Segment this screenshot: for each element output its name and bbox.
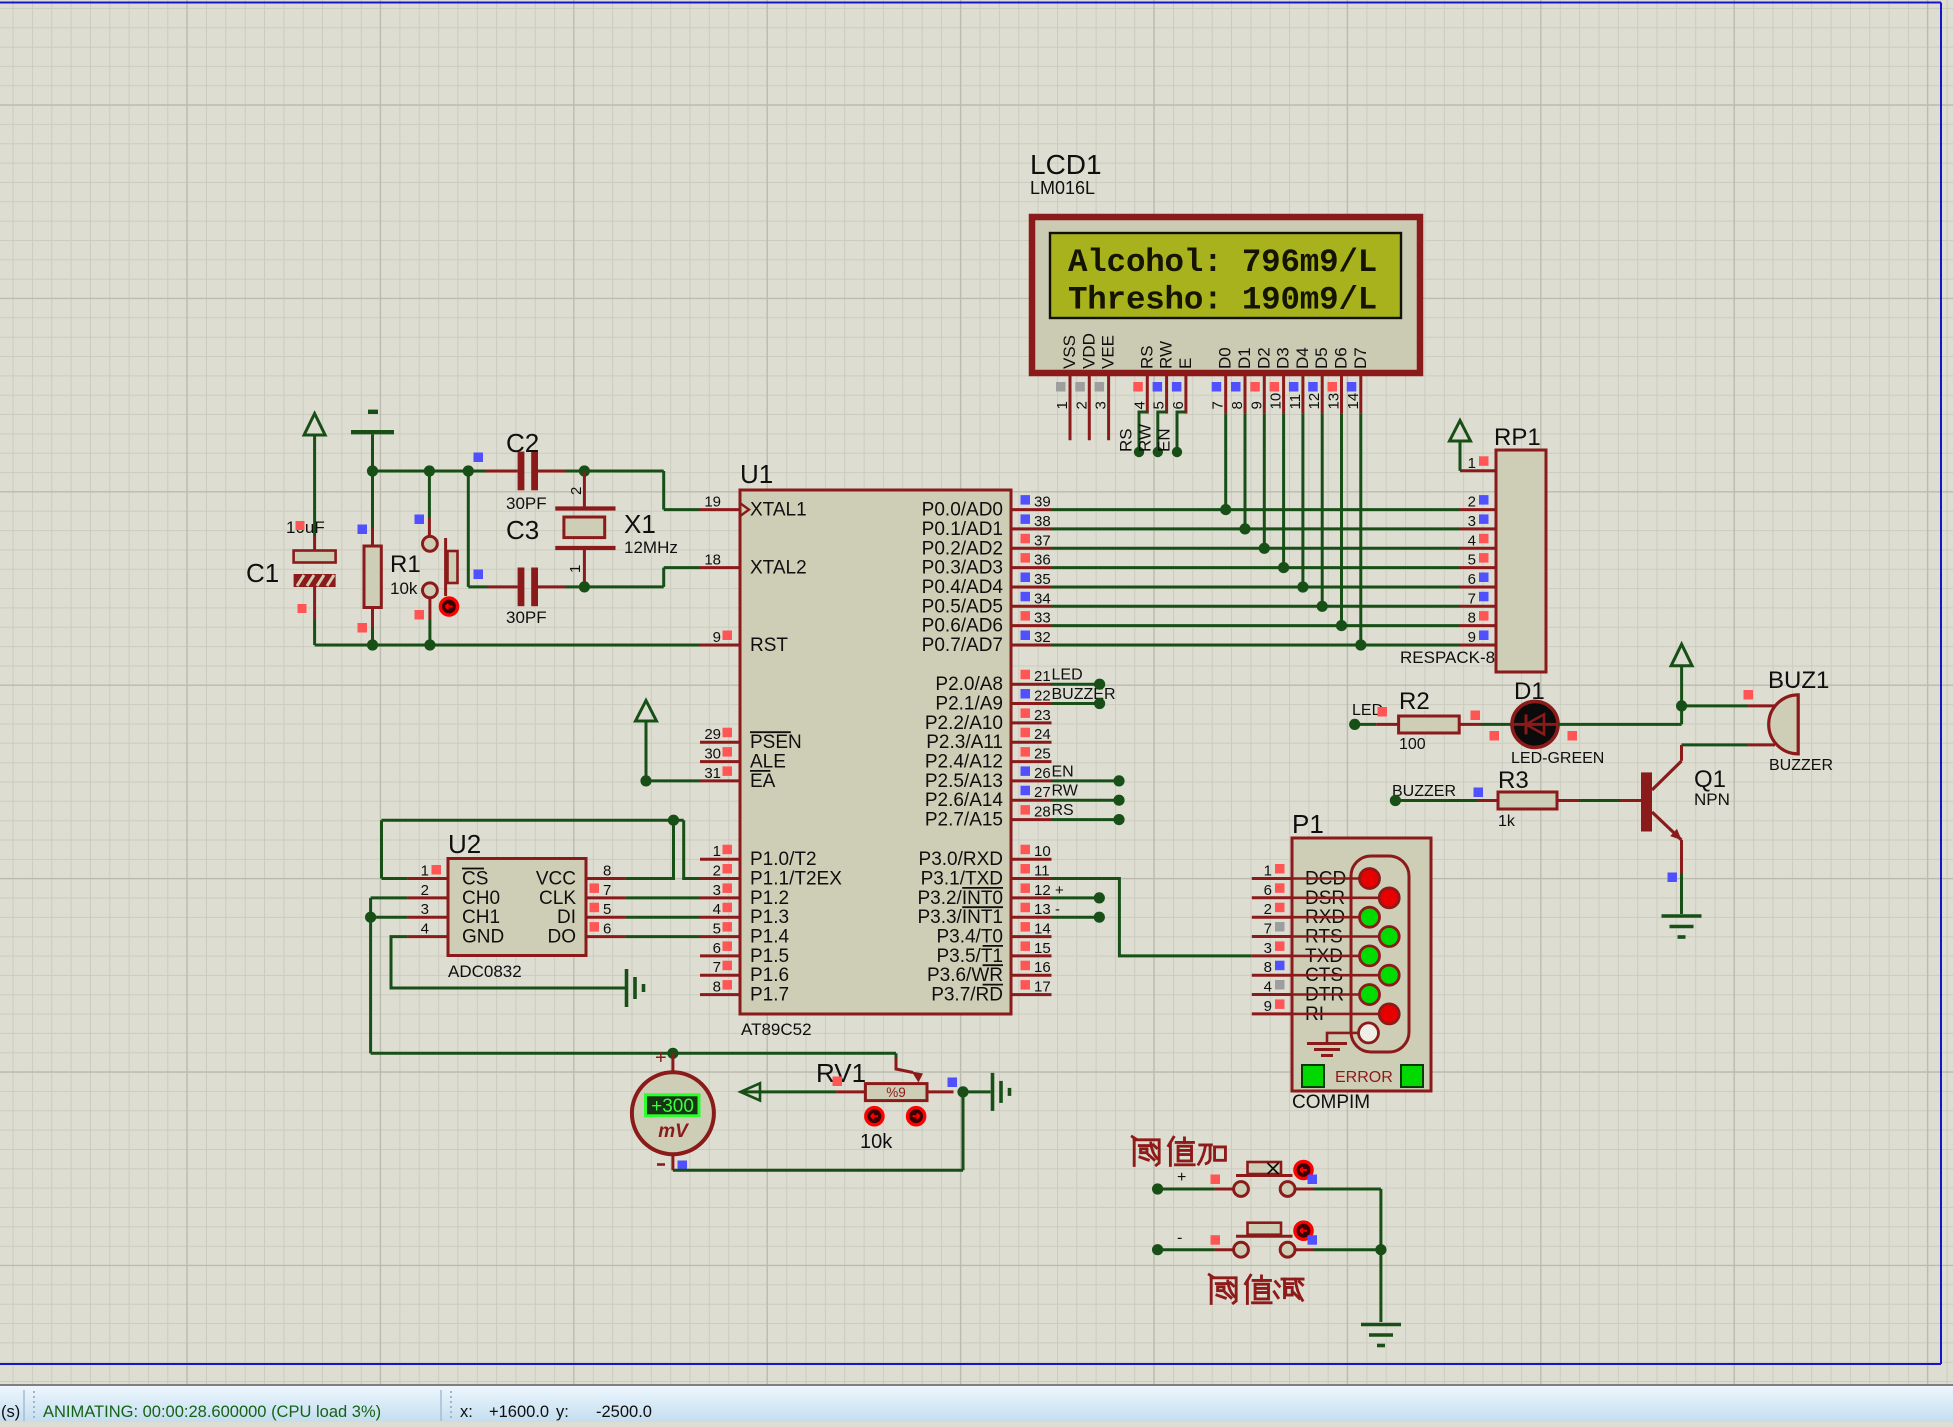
svg-text:P1.2: P1.2	[750, 888, 789, 909]
svg-text:10k: 10k	[860, 1131, 893, 1153]
svg-text:1: 1	[1054, 401, 1071, 409]
svg-text:30PF: 30PF	[506, 608, 547, 627]
svg-text:5: 5	[1151, 401, 1168, 409]
svg-text:y:: y:	[556, 1403, 569, 1421]
svg-text:1: 1	[567, 565, 584, 573]
svg-text:R3: R3	[1498, 767, 1529, 794]
svg-text:P2.0/A8: P2.0/A8	[935, 674, 1003, 695]
svg-text:27: 27	[1034, 784, 1051, 801]
svg-text:VDD: VDD	[1079, 333, 1098, 369]
svg-text:11: 11	[1034, 863, 1050, 880]
svg-text:T: T	[1068, 282, 1088, 319]
svg-text:14: 14	[1034, 921, 1051, 938]
svg-text:P0.1/AD1: P0.1/AD1	[922, 519, 1003, 540]
svg-text:10: 10	[1268, 393, 1285, 410]
svg-text:r: r	[1107, 282, 1127, 319]
svg-text:2: 2	[421, 882, 429, 899]
svg-text:D5: D5	[1312, 347, 1331, 369]
svg-text:P1.1/T2EX: P1.1/T2EX	[750, 869, 842, 890]
svg-text:13: 13	[1034, 901, 1051, 918]
svg-text:7: 7	[713, 959, 721, 976]
svg-text:ALE: ALE	[750, 752, 786, 773]
svg-text:4: 4	[1264, 979, 1272, 996]
svg-text:34: 34	[1034, 590, 1051, 607]
svg-text:P3.0/RXD: P3.0/RXD	[919, 849, 1003, 870]
svg-text:P0.0/AD0: P0.0/AD0	[922, 500, 1003, 521]
svg-text:l: l	[1184, 244, 1204, 281]
svg-text:U1: U1	[740, 459, 773, 489]
svg-text:RS: RS	[1052, 802, 1074, 819]
svg-text:P0.7/AD7: P0.7/AD7	[922, 635, 1003, 656]
svg-text:P3.7/RD: P3.7/RD	[931, 985, 1003, 1006]
svg-text:D2: D2	[1254, 347, 1273, 369]
svg-text:30PF: 30PF	[506, 494, 547, 513]
svg-text:P1.0/T2: P1.0/T2	[750, 849, 817, 870]
svg-text:11: 11	[1287, 394, 1304, 410]
svg-text:RW: RW	[1052, 783, 1079, 800]
svg-text:GND: GND	[462, 927, 504, 948]
svg-text:6: 6	[603, 921, 611, 938]
svg-text:VSS: VSS	[1060, 335, 1079, 369]
svg-text:A: A	[1068, 244, 1088, 281]
svg-text:8: 8	[1468, 610, 1476, 627]
svg-text:2: 2	[1468, 494, 1476, 511]
svg-text:CH0: CH0	[462, 888, 500, 909]
svg-text:6: 6	[1170, 401, 1187, 409]
svg-text:7: 7	[1264, 921, 1272, 938]
svg-text:P2.2/A10: P2.2/A10	[925, 713, 1003, 734]
svg-text:13: 13	[1326, 393, 1343, 410]
svg-text:P2.4/A12: P2.4/A12	[925, 752, 1003, 773]
svg-text:R2: R2	[1399, 688, 1430, 715]
svg-text:L: L	[1358, 244, 1378, 281]
svg-text:BUZZER: BUZZER	[1052, 686, 1116, 703]
svg-text:P1.5: P1.5	[750, 946, 789, 967]
svg-text::: :	[1203, 244, 1223, 281]
svg-text:P3.3/INT1: P3.3/INT1	[917, 907, 1003, 928]
svg-text:P2.7/A15: P2.7/A15	[925, 810, 1003, 831]
svg-text:1: 1	[1242, 282, 1262, 319]
svg-text:6: 6	[713, 940, 721, 957]
svg-text:P1.4: P1.4	[750, 927, 790, 948]
svg-text:/: /	[1338, 244, 1358, 281]
svg-text:D1: D1	[1235, 347, 1254, 369]
svg-text:P2.1/A9: P2.1/A9	[935, 694, 1003, 715]
svg-text:35: 35	[1034, 571, 1051, 588]
svg-text:RST: RST	[750, 635, 788, 656]
svg-text:16: 16	[1034, 959, 1051, 976]
svg-text:1k: 1k	[1498, 813, 1516, 830]
svg-text:VEE: VEE	[1099, 335, 1118, 369]
svg-text:6: 6	[1264, 882, 1272, 899]
svg-text:12: 12	[1034, 882, 1051, 899]
svg-text:DI: DI	[557, 907, 576, 928]
svg-text:P0.6/AD6: P0.6/AD6	[922, 616, 1003, 637]
svg-text:P1.7: P1.7	[750, 985, 789, 1006]
svg-text:LED: LED	[1052, 667, 1083, 684]
svg-text:8: 8	[1229, 401, 1246, 409]
svg-text:P0.3/AD3: P0.3/AD3	[922, 558, 1003, 579]
svg-text:18: 18	[704, 552, 721, 569]
svg-text:4: 4	[713, 901, 721, 918]
svg-text:U2: U2	[448, 829, 481, 859]
svg-text:4: 4	[421, 921, 429, 938]
svg-text:32: 32	[1034, 629, 1051, 646]
svg-text:%9: %9	[886, 1085, 906, 1100]
svg-text:P3.5/T1: P3.5/T1	[936, 946, 1003, 967]
svg-text:15: 15	[1034, 940, 1051, 957]
svg-text:/: /	[1338, 282, 1358, 319]
svg-text:5: 5	[603, 901, 611, 918]
svg-text:33: 33	[1034, 610, 1051, 627]
svg-text:c: c	[1107, 244, 1127, 281]
svg-text:26: 26	[1034, 765, 1051, 782]
svg-text:BUZZER: BUZZER	[1769, 757, 1833, 774]
svg-text:RW: RW	[1136, 424, 1155, 452]
svg-text:3: 3	[1468, 513, 1476, 530]
svg-text:10uF: 10uF	[286, 518, 325, 537]
svg-text:5: 5	[713, 921, 721, 938]
svg-text:6: 6	[1280, 244, 1300, 281]
svg-text:RS: RS	[1137, 345, 1156, 369]
svg-text:+300: +300	[651, 1096, 694, 1117]
svg-text:ANIMATING: 00:00:28.600000 (CP: ANIMATING: 00:00:28.600000 (CPU load 3%)	[43, 1403, 381, 1421]
svg-text:e: e	[1126, 282, 1146, 319]
svg-text:37: 37	[1034, 532, 1051, 549]
svg-text:21: 21	[1034, 668, 1051, 685]
svg-text:ERROR: ERROR	[1335, 1069, 1393, 1086]
svg-text:2: 2	[1073, 401, 1090, 409]
svg-text:30: 30	[704, 746, 721, 763]
svg-text:5: 5	[1468, 552, 1476, 569]
svg-text:EA: EA	[750, 771, 776, 792]
svg-text:P1.6: P1.6	[750, 965, 789, 986]
svg-text:s: s	[1145, 282, 1165, 319]
svg-text:RP1: RP1	[1494, 424, 1541, 451]
svg-text:mV: mV	[658, 1121, 689, 1142]
svg-text:R1: R1	[390, 551, 421, 578]
svg-text:8: 8	[603, 863, 611, 880]
svg-text:ADC0832: ADC0832	[448, 962, 522, 981]
svg-text:P2.5/A13: P2.5/A13	[925, 771, 1003, 792]
svg-text:CS: CS	[462, 869, 488, 890]
svg-text:m: m	[1300, 244, 1320, 281]
svg-text:DO: DO	[548, 927, 577, 948]
svg-text:23: 23	[1034, 707, 1051, 724]
svg-text:+: +	[655, 1047, 667, 1069]
svg-text:P1.3: P1.3	[750, 907, 789, 928]
svg-text:BUZ1: BUZ1	[1768, 667, 1829, 694]
svg-text:1: 1	[713, 843, 721, 860]
svg-text:8: 8	[1264, 959, 1272, 976]
svg-text:7: 7	[1210, 401, 1227, 409]
svg-text:o: o	[1184, 282, 1204, 319]
svg-text:L: L	[1358, 282, 1378, 319]
svg-text:3: 3	[421, 901, 429, 918]
svg-text:4: 4	[1131, 401, 1148, 409]
svg-text:12MHz: 12MHz	[624, 538, 678, 557]
svg-text:14: 14	[1345, 393, 1362, 410]
svg-text:36: 36	[1034, 552, 1051, 569]
svg-text:9: 9	[1468, 629, 1476, 646]
svg-text:VCC: VCC	[536, 869, 576, 890]
svg-text:29: 29	[704, 726, 721, 743]
svg-text:7: 7	[603, 882, 611, 899]
svg-text:7: 7	[1242, 244, 1262, 281]
svg-text:0: 0	[1280, 282, 1300, 319]
svg-text:3: 3	[1264, 940, 1272, 957]
svg-text:10: 10	[1034, 843, 1051, 860]
svg-text:CLK: CLK	[539, 888, 576, 909]
svg-text:P3.1/TXD: P3.1/TXD	[921, 869, 1003, 890]
svg-text:10k: 10k	[390, 579, 418, 598]
svg-text:D7: D7	[1351, 347, 1370, 369]
svg-text:2: 2	[568, 487, 585, 495]
svg-text:D4: D4	[1293, 347, 1312, 369]
svg-text:CH1: CH1	[462, 907, 500, 928]
svg-text:1: 1	[1468, 455, 1476, 472]
svg-text:LM016L: LM016L	[1030, 178, 1095, 198]
svg-text:C1: C1	[246, 558, 279, 588]
svg-text:XTAL2: XTAL2	[750, 558, 807, 579]
svg-text:Q1: Q1	[1694, 766, 1726, 793]
svg-text:h: h	[1087, 282, 1107, 319]
svg-text:9: 9	[1261, 282, 1281, 319]
svg-text:l: l	[1087, 244, 1107, 281]
svg-text:9: 9	[1319, 244, 1339, 281]
svg-text:2: 2	[1264, 901, 1272, 918]
svg-text:AT89C52: AT89C52	[741, 1020, 812, 1039]
svg-text:m: m	[1300, 282, 1320, 319]
svg-text:D3: D3	[1274, 347, 1293, 369]
svg-text:-: -	[1055, 901, 1060, 918]
svg-text:PSEN: PSEN	[750, 732, 802, 753]
svg-text:P2.6/A14: P2.6/A14	[925, 790, 1004, 811]
svg-text:C3: C3	[506, 515, 539, 545]
svg-text:38: 38	[1034, 513, 1051, 530]
svg-text:25: 25	[1034, 746, 1051, 763]
svg-text:-2500.0: -2500.0	[596, 1403, 652, 1421]
svg-text:39: 39	[1034, 494, 1051, 511]
svg-text:8: 8	[713, 979, 721, 996]
svg-text:19: 19	[704, 494, 721, 511]
svg-text:2: 2	[713, 863, 721, 880]
svg-text:P0.2/AD2: P0.2/AD2	[922, 538, 1003, 559]
svg-text:9: 9	[713, 629, 721, 646]
svg-text:28: 28	[1034, 804, 1051, 821]
svg-text:EN: EN	[1155, 428, 1174, 452]
svg-text:9: 9	[1248, 401, 1265, 409]
svg-text:XTAL1: XTAL1	[750, 500, 807, 521]
svg-text:LCD1: LCD1	[1030, 149, 1102, 180]
svg-text:COMPIM: COMPIM	[1292, 1092, 1370, 1113]
svg-text:7: 7	[1468, 590, 1476, 607]
svg-text:12: 12	[1306, 393, 1323, 410]
svg-text:+: +	[1177, 1169, 1186, 1186]
svg-text:RESPACK-8: RESPACK-8	[1400, 648, 1495, 667]
svg-text:RW: RW	[1157, 341, 1176, 369]
svg-text:h: h	[1165, 282, 1185, 319]
svg-text:(s): (s)	[1, 1403, 20, 1421]
svg-text:100: 100	[1399, 736, 1426, 753]
svg-text:BUZZER: BUZZER	[1392, 783, 1456, 800]
svg-text:P3.6/WR: P3.6/WR	[927, 965, 1003, 986]
svg-text:D0: D0	[1216, 347, 1235, 369]
svg-text:17: 17	[1034, 979, 1051, 996]
svg-text:9: 9	[1264, 998, 1272, 1015]
svg-text:22: 22	[1034, 688, 1051, 705]
svg-text:-: -	[1177, 1230, 1182, 1247]
svg-text:x:: x:	[460, 1403, 473, 1421]
svg-text:P1: P1	[1292, 809, 1324, 839]
svg-text:h: h	[1145, 244, 1165, 281]
svg-text:+1600.0: +1600.0	[489, 1403, 549, 1421]
svg-text:C2: C2	[506, 428, 539, 458]
svg-text:3: 3	[1093, 401, 1110, 409]
svg-text:1: 1	[421, 863, 429, 880]
svg-text:X1: X1	[624, 509, 656, 539]
svg-text:o: o	[1126, 244, 1146, 281]
svg-text:P0.4/AD4: P0.4/AD4	[922, 577, 1004, 598]
svg-text:RS: RS	[1117, 428, 1136, 452]
svg-text:4: 4	[1468, 532, 1476, 549]
svg-text:P0.5/AD5: P0.5/AD5	[922, 596, 1003, 617]
svg-text::: :	[1203, 282, 1223, 319]
svg-text:+: +	[1055, 882, 1064, 899]
svg-text:24: 24	[1034, 726, 1051, 743]
svg-text:P3.4/T0: P3.4/T0	[936, 927, 1003, 948]
svg-text:1: 1	[1264, 863, 1272, 880]
svg-text:D1: D1	[1514, 678, 1545, 705]
svg-text:NPN: NPN	[1694, 790, 1730, 809]
svg-text:31: 31	[704, 765, 721, 782]
svg-text:o: o	[1165, 244, 1185, 281]
svg-text:P3.2/INT0: P3.2/INT0	[917, 888, 1003, 909]
svg-text:E: E	[1176, 358, 1195, 369]
svg-text:9: 9	[1261, 244, 1281, 281]
svg-text:P2.3/A11: P2.3/A11	[926, 732, 1003, 753]
svg-text:LED-GREEN: LED-GREEN	[1511, 750, 1604, 767]
svg-text:6: 6	[1468, 571, 1476, 588]
svg-text:9: 9	[1319, 282, 1339, 319]
svg-text:EN: EN	[1052, 763, 1074, 780]
svg-text:D6: D6	[1332, 347, 1351, 369]
svg-text:3: 3	[713, 882, 721, 899]
